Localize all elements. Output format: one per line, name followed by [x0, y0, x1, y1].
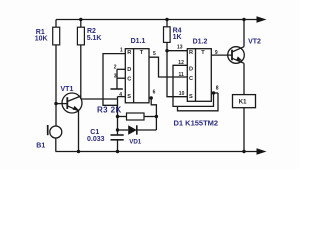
svg-text:10K: 10K — [35, 36, 48, 43]
svg-text:R3 2K: R3 2K — [97, 105, 122, 114]
svg-text:T: T — [201, 50, 205, 56]
svg-text:D1.2: D1.2 — [193, 39, 208, 46]
svg-text:K1: K1 — [239, 99, 247, 105]
svg-text:11: 11 — [179, 72, 185, 78]
svg-text:S: S — [127, 94, 131, 100]
svg-text:D: D — [127, 67, 131, 73]
svg-text:T: T — [140, 50, 144, 56]
svg-text:D1 K155TM2: D1 K155TM2 — [174, 118, 219, 127]
svg-text:S: S — [189, 94, 193, 100]
svg-text:8: 8 — [216, 86, 219, 92]
svg-text:12: 12 — [178, 60, 184, 66]
svg-text:6: 6 — [153, 89, 156, 95]
svg-text:9: 9 — [215, 50, 218, 56]
svg-text:D1.1: D1.1 — [131, 38, 146, 45]
svg-text:4: 4 — [119, 92, 122, 98]
svg-text:1K: 1K — [173, 34, 182, 41]
svg-text:5: 5 — [153, 51, 156, 57]
svg-text:2: 2 — [114, 65, 117, 71]
svg-text:VT1: VT1 — [61, 86, 74, 93]
svg-text:5.1K: 5.1K — [87, 35, 102, 42]
svg-text:VT2: VT2 — [248, 39, 261, 46]
svg-text:R: R — [127, 50, 131, 56]
svg-text:D: D — [189, 67, 193, 73]
svg-text:R2: R2 — [87, 28, 96, 35]
svg-text:1: 1 — [120, 47, 123, 53]
svg-text:C: C — [127, 77, 131, 83]
svg-text:B1: B1 — [36, 143, 45, 150]
svg-text:0.033: 0.033 — [87, 136, 105, 143]
svg-text:3: 3 — [114, 74, 117, 80]
svg-text:13: 13 — [177, 45, 183, 51]
svg-text:R: R — [189, 50, 193, 56]
svg-text:10: 10 — [179, 91, 185, 97]
svg-text:C: C — [189, 76, 193, 82]
svg-text:VD1: VD1 — [129, 139, 142, 146]
